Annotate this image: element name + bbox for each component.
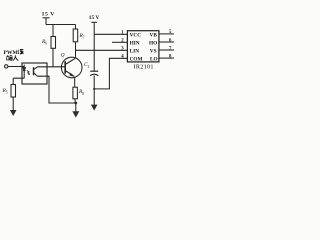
svg-text:15 V: 15 V	[42, 12, 56, 18]
resistor R6	[51, 37, 56, 49]
label input (ru) glyph	[13, 55, 18, 60]
IC pin name VS	[150, 48, 157, 54]
junction node dot	[74, 102, 77, 105]
supply +15V left label	[42, 12, 56, 18]
wire Q base	[47, 66, 65, 68]
pin stub 8	[159, 57, 174, 59]
wire Q emitter down	[74, 78, 76, 88]
transistor Q1 emitter arrow	[69, 73, 75, 77]
wire 15V rail	[46, 24, 76, 26]
wire opto cathode to R5	[13, 78, 22, 84]
IC pin name LIN	[130, 48, 140, 54]
wire R7 bottom to collector node	[75, 42, 77, 58]
junction dot C1/COM	[93, 88, 95, 90]
input terminal circle	[5, 65, 8, 68]
wire opto emitter to bottom rail	[47, 76, 76, 103]
capacitor C1 bottom plate (curved)	[90, 74, 98, 75]
svg-text:Q: Q	[61, 52, 65, 58]
optocoupler LED	[23, 65, 25, 74]
wire COM (pin4) return	[94, 58, 127, 89]
IC pin name HO	[149, 40, 157, 46]
svg-text:6: 6	[45, 42, 47, 46]
svg-text:VS: VS	[150, 48, 157, 54]
svg-text:1: 1	[88, 65, 90, 69]
optocoupler light arrows	[27, 70, 30, 74]
IC label IR2101	[134, 63, 154, 70]
svg-text:IR2101: IR2101	[134, 63, 154, 70]
pin number 1	[121, 31, 124, 36]
resistor R7	[73, 29, 78, 42]
IC U1 IR2101 box	[127, 31, 158, 62]
pin stub 5	[159, 33, 174, 35]
optocoupler phototransistor	[33, 67, 35, 75]
ground arrow 3	[91, 105, 98, 111]
wire supply left vertical	[45, 18, 47, 25]
glyph bo (wave)	[18, 49, 24, 54]
ground arrow 1	[10, 110, 17, 116]
supply +15V right label	[89, 15, 100, 21]
transistor Q1 label	[61, 52, 65, 58]
svg-text:HIN: HIN	[130, 40, 140, 46]
transistor Q1 base bar	[64, 61, 66, 73]
svg-text:7: 7	[83, 36, 85, 40]
svg-text:LIN: LIN	[130, 48, 140, 54]
svg-text:VB: VB	[150, 32, 158, 38]
wire input to opto	[8, 66, 22, 68]
svg-text:HO: HO	[149, 40, 157, 46]
IC pin name HIN	[130, 40, 140, 46]
wire C1 bottom down	[93, 76, 95, 106]
supply +15V left terminal bar	[43, 17, 50, 19]
capacitor C1 label	[84, 62, 90, 69]
pin stub 6	[159, 41, 174, 43]
IC pin name VB	[150, 32, 158, 38]
ground arrow 2	[72, 111, 79, 117]
resistor R8	[73, 87, 78, 99]
svg-text:5: 5	[6, 90, 8, 94]
wire LIN (pin3) from collector node	[76, 49, 128, 51]
pin number 4	[121, 55, 124, 60]
svg-text:COM: COM	[130, 56, 143, 62]
wire 15V right vertical down to C1	[93, 22, 95, 71]
capacitor C1 top plate	[90, 70, 98, 72]
svg-text:15 V: 15 V	[89, 15, 100, 21]
IC pin name COM	[130, 56, 143, 62]
wire HIN (pin2) stub	[112, 41, 127, 43]
wire R6 top	[52, 25, 54, 37]
pin stub 7	[159, 49, 174, 51]
pin number 2	[121, 39, 124, 44]
pin number 3	[121, 47, 124, 52]
IC pin name VCC	[130, 32, 142, 38]
svg-text:VCC: VCC	[130, 32, 142, 38]
wire R8 bottom to junction	[74, 99, 76, 103]
svg-text:8: 8	[82, 92, 84, 96]
wire VCC (pin1)	[94, 33, 127, 35]
optocoupler pin wires inside	[22, 67, 47, 79]
svg-text:LO: LO	[150, 56, 158, 62]
wire junction to ground	[75, 103, 77, 112]
supply +15V right terminal bar	[91, 21, 97, 23]
resistor R5	[11, 85, 16, 98]
transistor Q1 circle	[61, 57, 82, 78]
wire R7 top	[75, 25, 77, 30]
wire R6 bottom to base node	[52, 48, 54, 67]
transistor Q1 emitter stroke	[65, 71, 74, 77]
label input (shu) glyph	[6, 55, 12, 60]
IC pin name LO	[150, 56, 158, 62]
wire R5 to ground	[12, 97, 14, 110]
transistor Q1 collector stroke	[65, 59, 75, 65]
label PWM input line1	[4, 50, 19, 56]
optocoupler U box	[22, 63, 47, 84]
